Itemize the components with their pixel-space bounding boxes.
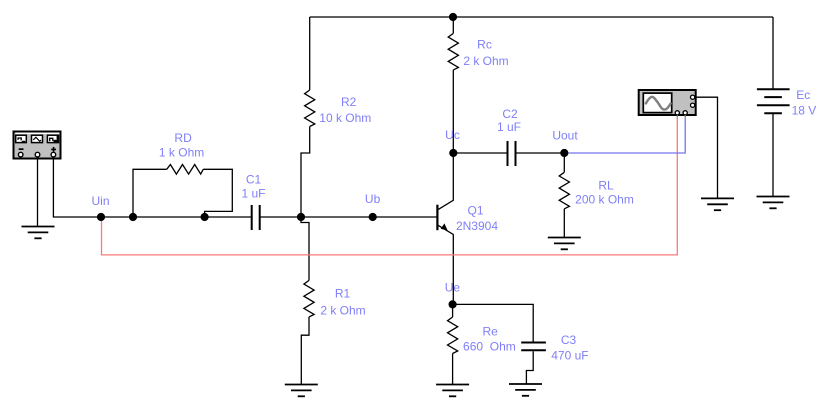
ground R1 [285, 385, 318, 397]
svg-text:Ub: Ub [365, 192, 381, 206]
capacitor C2 1 uF [508, 141, 516, 166]
svg-text:Uc: Uc [445, 128, 460, 142]
svg-text:C1: C1 [246, 173, 262, 187]
wire Re bottom lead to ground [452, 354, 454, 385]
node Uin [97, 213, 105, 221]
wire red probe from Uin to oscilloscope channel A [102, 117, 678, 255]
wire scope ground lead [695, 97, 718, 198]
svg-text:2 k Ohm: 2 k Ohm [463, 54, 508, 68]
svg-text:Uout: Uout [552, 129, 578, 143]
svg-text:Rc: Rc [477, 37, 492, 51]
svg-text:RL: RL [598, 179, 614, 193]
wire function generator common to ground [37, 157, 39, 227]
transistor Q1 emitter [438, 225, 453, 304]
wire Uc to C2 [453, 152, 506, 154]
svg-text:18 V: 18 V [792, 104, 816, 118]
capacitor C1 1 uF [252, 205, 260, 230]
junction RD right [201, 213, 209, 221]
svg-text:2 k Ohm: 2 k Ohm [320, 303, 365, 317]
resistor Re 660 Ohm [448, 317, 458, 354]
svg-text:200 k Ohm: 200 k Ohm [575, 193, 634, 207]
node Ub [369, 213, 377, 221]
resistor R2 10 k Ohm [305, 90, 315, 127]
transistor Q1 2N3904 base bar [436, 205, 438, 231]
wire battery bottom lead to ground [772, 113, 774, 196]
node Uc [449, 149, 457, 157]
battery Ec 18 V [757, 89, 790, 113]
svg-text:10 k Ohm: 10 k Ohm [319, 111, 371, 125]
node Uout [560, 149, 568, 157]
wire Rc top lead [452, 17, 454, 33]
capacitor C3 470 uF [521, 343, 546, 351]
ground function generator [22, 227, 55, 239]
wire Re top lead from Ue [452, 304, 454, 317]
svg-text:Ec: Ec [796, 88, 810, 102]
svg-text:1 uF: 1 uF [241, 186, 265, 200]
junction base divider [297, 213, 305, 221]
svg-text:Uin: Uin [91, 194, 109, 208]
resistor RD 1 k Ohm [167, 165, 204, 175]
svg-text:C3: C3 [561, 333, 577, 347]
svg-text:660 Ohm: 660 Ohm [463, 339, 516, 353]
svg-text:2N3904: 2N3904 [456, 219, 498, 233]
junction RD left [129, 213, 137, 221]
svg-text:R1: R1 [335, 287, 351, 301]
svg-text:C2: C2 [502, 107, 518, 121]
wire top rail Vcc [310, 16, 773, 18]
node Ue [449, 300, 457, 308]
function generator instrument [14, 132, 61, 159]
transistor Q1 collector [438, 153, 453, 210]
wire Rc bottom lead to Uc [452, 70, 454, 153]
wire R1 top lead from base node [301, 217, 309, 280]
wire function generator + output down and to Uin [53, 157, 251, 217]
wire main base line C1 to Q1 base [260, 216, 437, 218]
resistor R1 2 k Ohm [304, 280, 314, 317]
wire Ue to C3 [453, 304, 534, 341]
svg-text:RD: RD [174, 131, 192, 145]
wire C2 to Uout [516, 152, 564, 154]
svg-text:R2: R2 [341, 95, 357, 109]
wire RL bottom lead to ground [563, 209, 565, 238]
wire C3 bottom lead to ground [526, 351, 533, 384]
wire blue probe from Uout to oscilloscope channel B [564, 117, 685, 154]
wire R2 bottom lead to base node [301, 127, 310, 218]
ground Re [436, 385, 469, 397]
svg-text:1 k Ohm: 1 k Ohm [159, 146, 204, 160]
wire R2 top lead [309, 17, 311, 90]
resistor RL 200 k Ohm [559, 172, 569, 209]
resistor Rc 2 k Ohm [448, 33, 458, 70]
ground oscilloscope [701, 198, 734, 210]
ground RL [548, 238, 581, 250]
junction Vcc rail [449, 13, 457, 21]
wire RL top lead from Uout [563, 153, 565, 172]
ground C3 [509, 384, 542, 396]
wire RD loop right side [203, 169, 232, 217]
svg-text:1 uF: 1 uF [497, 120, 521, 134]
wire RD feedback loop left side [133, 169, 167, 217]
svg-text:Q1: Q1 [467, 203, 483, 217]
oscilloscope instrument [639, 90, 696, 117]
wire R1 bottom lead to ground [301, 317, 309, 385]
transistor Q1 emitter arrow [441, 223, 448, 230]
ground battery [757, 197, 790, 209]
svg-text:Ue: Ue [445, 281, 461, 295]
wire battery top lead [772, 17, 774, 89]
svg-text:Re: Re [483, 325, 499, 339]
svg-text:470 uF: 470 uF [551, 349, 588, 363]
